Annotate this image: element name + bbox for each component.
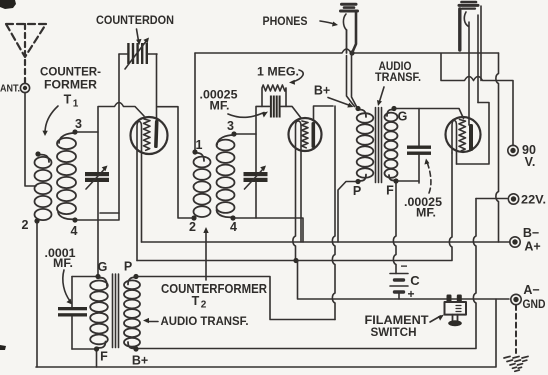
svg-text:A+: A+ xyxy=(524,240,540,254)
AF2 F dot xyxy=(393,178,398,183)
svg-text:MF.: MF. xyxy=(210,99,230,113)
wire cap C1 bottom down to G of audio transformer AF1 xyxy=(97,182,99,275)
90V feed line with hops over jack wires xyxy=(441,54,513,146)
wire T2 terminal 3 to grid node xyxy=(236,133,256,135)
wire counterdon left lead down to terminal-4 net xyxy=(118,54,120,213)
terminal A- GND xyxy=(511,294,521,304)
wire terminal 4 net to A+ bus xyxy=(235,218,303,242)
svg-text:GND: GND xyxy=(523,297,546,311)
V1 filament xyxy=(137,122,142,261)
wire AF2 F down through battery C to A- line xyxy=(393,183,396,274)
A- bus (bus2) xyxy=(137,153,452,261)
svg-text:2: 2 xyxy=(201,300,207,311)
B- A+ feed wire from top bus xyxy=(496,53,499,242)
svg-text:G: G xyxy=(98,260,108,274)
grid condenser C3 .00025 MF xyxy=(270,96,281,118)
label .0001 MF. xyxy=(45,246,76,270)
svg-text:COUNTERDON: COUNTERDON xyxy=(96,13,174,27)
svg-text:1 MEG.: 1 MEG. xyxy=(257,65,299,79)
wire antenna to T1 tap xyxy=(25,93,36,186)
wire AF2 F to C5 bottom xyxy=(398,180,419,182)
filament switch S1 xyxy=(445,295,467,327)
V3 grid xyxy=(459,120,466,151)
AF2 core xyxy=(376,108,382,183)
wire terminal 4 to counterdon return xyxy=(77,213,119,220)
V2 filament xyxy=(293,121,301,261)
counterdon leads xyxy=(119,53,127,55)
svg-text:T: T xyxy=(64,93,72,107)
ANT terminal xyxy=(20,83,29,92)
wires grid condenser node xyxy=(256,106,270,172)
svg-text:2: 2 xyxy=(22,218,29,232)
svg-text:B−: B− xyxy=(523,226,539,240)
wire top bus left end down to T2 primary xyxy=(194,53,196,151)
phone tip jack J1 xyxy=(341,4,358,53)
capacitor C5 .00025 MF (across AF2 secondary) xyxy=(407,146,431,155)
grid leak resistor R1 1 MEG xyxy=(262,85,286,106)
arrow COUNTERFORMER T2 up to T2 xyxy=(203,227,208,280)
tuning capacitor C4 arrow xyxy=(245,166,267,190)
audio transformer AF1 primary coil (G-F side) xyxy=(90,278,108,348)
wire grid node up and to tube V1 grid, hop over counterdon lead xyxy=(98,103,144,133)
top bus wire (B+ to jacks) xyxy=(195,49,499,53)
svg-text:FORMER: FORMER xyxy=(44,78,97,92)
terminal 90 V. xyxy=(508,145,518,155)
label B- A+ xyxy=(523,226,541,254)
svg-text:P: P xyxy=(124,260,132,274)
jack J2 wire to filament link xyxy=(477,15,479,103)
link from jack J2 to V3 filament xyxy=(457,103,490,165)
transformer T2 secondary coil xyxy=(217,135,235,217)
svg-text:TRANSF.: TRANSF. xyxy=(375,72,421,84)
label .00025 MF. (grid condenser) xyxy=(200,88,238,113)
svg-text:1: 1 xyxy=(73,99,79,110)
V1 grid xyxy=(144,119,151,150)
label COUNTERFORMER T2 xyxy=(161,282,267,311)
wire counterdon right lead down to V1 plate xyxy=(156,54,158,120)
T2 terminal 1 dot xyxy=(192,149,197,154)
svg-text:3: 3 xyxy=(227,119,234,133)
svg-text:MF.: MF. xyxy=(53,256,73,270)
22V wire from B+ line xyxy=(476,198,507,200)
label AUDIO TRANSF. (AF2) xyxy=(375,61,421,84)
junction dot jack1 on top bus xyxy=(349,50,354,55)
wire C6 bottom to AF1 F xyxy=(72,348,97,350)
triode V3 envelope xyxy=(446,117,481,152)
label .00025 MF. (C5) xyxy=(404,195,442,220)
svg-text:B+: B+ xyxy=(314,84,330,98)
arrow PHONES to jack J1 xyxy=(320,21,338,27)
arrow AUDIO TRANSF to AF1 xyxy=(143,318,158,323)
wire AF1 P to V2 plate net xyxy=(138,277,335,320)
arrow .00025 to condenser xyxy=(228,112,268,118)
label A- GND xyxy=(523,283,546,311)
svg-text:22V.: 22V. xyxy=(521,193,546,207)
arrow FILAMENT SWITCH to switch xyxy=(430,315,444,323)
transformer T1 primary coil xyxy=(35,155,52,220)
svg-text:AUDIO TRANSF.: AUDIO TRANSF. xyxy=(161,314,249,328)
AF1 F dot xyxy=(94,346,99,351)
svg-text:COUNTERFORMER: COUNTERFORMER xyxy=(161,282,267,296)
svg-text:SWITCH: SWITCH xyxy=(371,325,417,339)
C5 leads xyxy=(418,109,420,146)
arrow 1 MEG to resistor xyxy=(289,70,303,85)
audio transformer AF2 primary coil xyxy=(357,110,374,181)
svg-text:3: 3 xyxy=(75,117,82,131)
AF1 F stub to bottom bus xyxy=(96,349,98,367)
wire terminal 3 to grid node xyxy=(77,132,98,172)
triode V2 envelope xyxy=(289,118,322,151)
svg-text:F: F xyxy=(100,350,108,364)
AF2 P dot xyxy=(355,179,360,184)
dashed arrow .00025 to C5 xyxy=(424,159,431,194)
T2 terminal 2 dot xyxy=(191,215,196,220)
scan speck left edge xyxy=(0,345,6,350)
audio transformer AF2 secondary coil xyxy=(385,110,398,181)
terminal 22V xyxy=(508,194,518,204)
svg-text:C: C xyxy=(410,273,420,288)
terminal B- A+ xyxy=(510,237,520,247)
svg-text:1: 1 xyxy=(196,138,203,152)
arrow B+ to AF2 primary top xyxy=(328,98,354,108)
battery labels xyxy=(400,259,420,301)
svg-text:ANT.: ANT. xyxy=(0,83,20,95)
V1 plate xyxy=(154,120,159,148)
V3 filament xyxy=(452,121,457,165)
counterdon arrow xyxy=(125,38,149,70)
svg-text:PHONES: PHONES xyxy=(263,14,308,28)
svg-text:V.: V. xyxy=(525,155,536,169)
AF1 core xyxy=(113,274,119,348)
A- line through filament switch to A- GND xyxy=(298,261,510,300)
V2 plate wire to AF1 primary xyxy=(314,106,334,121)
jack J1 wires to AF2 B+ node xyxy=(347,56,355,107)
triode V1 envelope xyxy=(131,117,168,154)
wire C4 bottom to terminal 4 net xyxy=(255,182,257,218)
svg-text:P: P xyxy=(353,184,361,198)
wire AF2 P down to A+ bus xyxy=(338,182,356,243)
wire T2 terminal 2 to V1 plate line xyxy=(158,107,193,218)
arrow AUDIO TRANSF to AF2 core xyxy=(377,87,384,106)
V2 grid xyxy=(302,121,308,148)
A+ / B- bus (bus1) xyxy=(142,241,511,243)
V2 plate xyxy=(312,122,316,148)
svg-text:B+: B+ xyxy=(132,354,148,368)
jack J2 wire to top bus corner xyxy=(480,6,482,81)
T1 primary bottom dot (terminal 2) xyxy=(34,218,39,223)
AF2 G dot xyxy=(391,106,396,111)
AF2 B+ dot xyxy=(355,106,360,111)
tuning capacitor C4 (T2) plates xyxy=(244,172,268,182)
jack J2 wire to V3 plate xyxy=(468,22,470,125)
T2 terminal 3 dot xyxy=(231,131,236,136)
dot V2 filament on A- bus xyxy=(293,258,298,263)
svg-text:T: T xyxy=(192,294,200,308)
battery bottom lead xyxy=(398,293,400,299)
arrow from T1 label to coil xyxy=(42,106,58,136)
capacitor C6 .0001 MF xyxy=(58,307,87,317)
tuning capacitor C1 (T1) plates xyxy=(85,172,109,182)
battery C xyxy=(390,274,408,293)
wire AF2 G to V3 grid xyxy=(396,109,464,119)
label FILAMENT SWITCH xyxy=(365,313,430,339)
C6 leads xyxy=(71,277,73,308)
svg-text:G: G xyxy=(398,110,408,124)
antenna xyxy=(6,24,46,85)
V3 plate xyxy=(469,124,473,151)
T1 primary top dot xyxy=(35,151,40,156)
transformer T1 secondary coil xyxy=(57,133,76,219)
AF1 G dot xyxy=(95,274,100,279)
arrow .0001 to capacitor C6 xyxy=(63,270,72,305)
wire C6 top to AF1 G xyxy=(72,276,98,278)
label 90 V. xyxy=(522,143,536,169)
arrow COUNTERDON to capacitor xyxy=(136,29,141,45)
T1 terminal 4 dot xyxy=(72,217,77,222)
tuning capacitor C1 arrow xyxy=(86,166,108,190)
T1 terminal 3 dot xyxy=(72,129,77,134)
scan artifact blob xyxy=(0,0,16,9)
svg-text:4: 4 xyxy=(230,220,237,234)
svg-text:MF.: MF. xyxy=(416,206,436,220)
svg-text:A−: A− xyxy=(523,283,539,297)
bottom bus wire xyxy=(36,299,496,367)
svg-text:2: 2 xyxy=(189,220,196,234)
svg-text:−: − xyxy=(400,259,407,273)
ground symbol xyxy=(515,305,517,353)
phone tip jack J2 xyxy=(459,2,478,50)
transformer T2 primary coil xyxy=(194,153,211,217)
AF1 P dot xyxy=(133,274,138,279)
svg-text:4: 4 xyxy=(71,224,78,238)
svg-text:F: F xyxy=(386,184,394,198)
audio transformer AF1 secondary coil (P-B+ side) xyxy=(124,277,140,348)
counterdon variable capacitor C2 xyxy=(127,43,148,64)
svg-text:COUNTER-: COUNTER- xyxy=(40,65,101,79)
B+ / 22V vertical line down to AF1 B+ xyxy=(137,199,476,349)
wire T1 terminal 2 to bottom bus xyxy=(36,223,38,367)
AF1 B+ dot xyxy=(133,346,138,351)
T2 terminal 4 dot xyxy=(230,215,235,220)
label COUNTER-FORMER T1 xyxy=(40,65,101,110)
